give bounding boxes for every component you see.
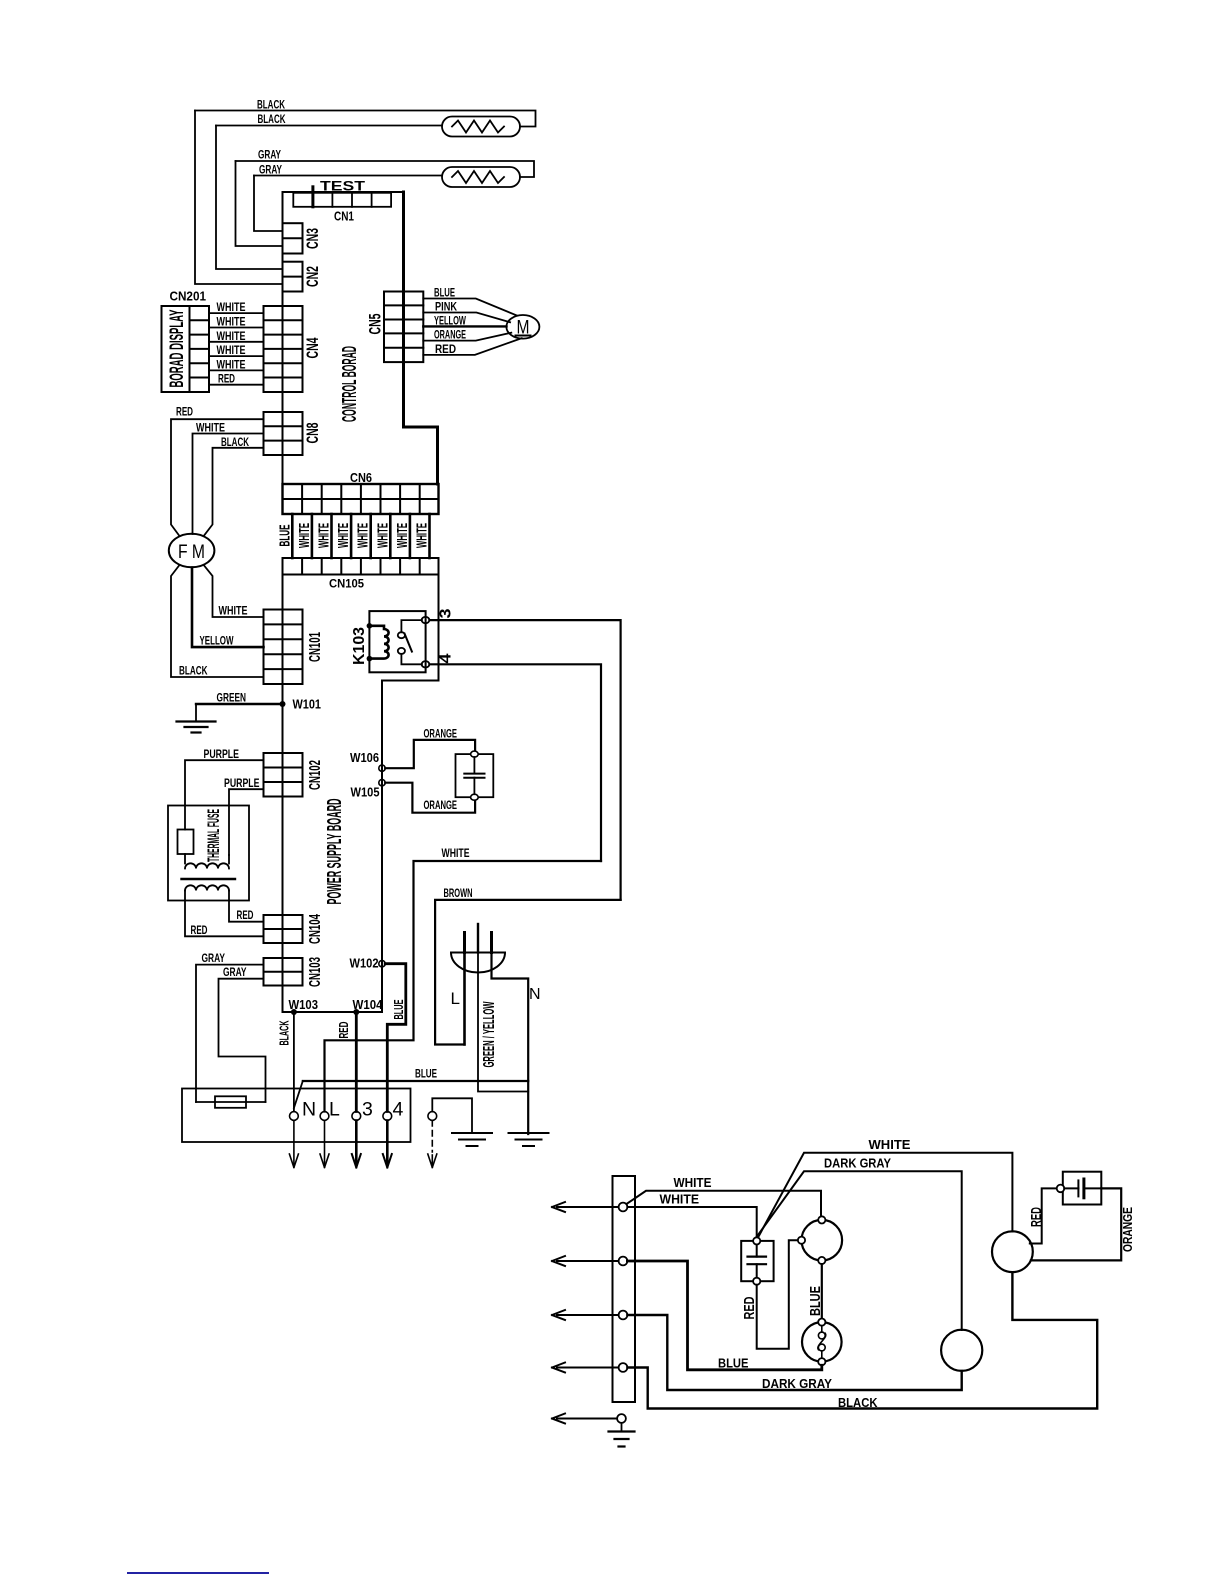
wire RED transformer to CN104 pin2 [185, 891, 264, 937]
ground (compressor harness) [621, 1423, 623, 1432]
svg-text:CN101: CN101 [307, 632, 324, 662]
wire WHITE CN201-CN4 pin1 [209, 312, 264, 314]
connector CN103 [264, 958, 303, 986]
svg-text:ORANGE: ORANGE [434, 330, 466, 342]
connector CN4 [264, 306, 303, 392]
thermal fuse element [178, 830, 194, 855]
svg-text:ORANGE: ORANGE [1120, 1207, 1135, 1252]
connector CN6 [283, 484, 439, 514]
node W105 [379, 780, 385, 786]
motor M (louver motor) [506, 315, 539, 339]
arrow below terminal L [324, 1121, 326, 1166]
capacitor C6 box [1063, 1172, 1102, 1205]
wire BLACK 2 to heater R1 [216, 125, 442, 127]
svg-text:YELLOW: YELLOW [434, 315, 466, 327]
wire RED CN201-CN4 pin6 [209, 384, 264, 386]
capacitor C101 box [456, 754, 494, 797]
svg-text:WHITE: WHITE [660, 1192, 700, 1206]
wire BROWN to plug L prong [435, 900, 620, 1045]
wire RED CN5 to motor M [423, 338, 521, 355]
svg-text:WHITE: WHITE [217, 359, 246, 371]
svg-text:CONTROL BORAD: CONTROL BORAD [339, 346, 361, 422]
svg-text:RED: RED [191, 925, 208, 937]
wire WHITE CN201-CN4 pin3 [209, 341, 264, 343]
svg-text:ORANGE: ORANGE [424, 728, 458, 740]
wire BLUE terminal N to plug N line [303, 1080, 528, 1082]
mains plug P1 [451, 952, 505, 954]
wire BLUE T2 to starter C5 bottom [627, 1261, 821, 1370]
heater R2 (gray circuit) [442, 167, 520, 187]
svg-text:CN105: CN105 [329, 577, 364, 591]
svg-text:WHITE: WHITE [414, 523, 431, 548]
svg-text:WHITE: WHITE [217, 331, 246, 343]
wire GRAY to CN103 pin2 (via fuse) [219, 979, 266, 1102]
svg-text:WHITE: WHITE [219, 606, 248, 618]
svg-text:3: 3 [362, 1099, 373, 1121]
wire GRAY 2 to heater R2 [254, 175, 442, 177]
svg-text:W105: W105 [351, 785, 380, 800]
svg-text:GREEN / YELLOW: GREEN / YELLOW [481, 1001, 498, 1067]
wire RED W104 to terminal 3 [355, 1012, 358, 1112]
svg-text:CN104: CN104 [307, 914, 324, 944]
transformer T1 primary winding [185, 854, 229, 864]
svg-text:POWER SUPPLY BOARD: POWER SUPPLY BOARD [324, 799, 346, 905]
wire PINK CN5 to motor M [423, 313, 510, 323]
connector CN3 [283, 223, 303, 253]
connector CN8 [264, 412, 303, 455]
svg-text:BORAD DISPLAY: BORAD DISPLAY [167, 309, 188, 387]
svg-text:K103: K103 [351, 627, 368, 665]
connector CN201 / display board box [162, 306, 210, 392]
wire bundle CN6 to CN105 (BLUE + 7x WHITE) [292, 514, 429, 558]
svg-text:WHITE: WHITE [316, 523, 333, 548]
svg-text:RED: RED [435, 344, 456, 356]
wire pin4 K103 to WHITE [429, 664, 601, 861]
arrow below terminal N [293, 1121, 295, 1166]
C1 bottom terminal [818, 1257, 825, 1264]
wire ORANGE capacitor C6 to compressor C4 [1031, 1188, 1121, 1260]
capacitor C2 box [741, 1241, 773, 1281]
svg-text:W106: W106 [350, 750, 379, 765]
svg-text:WHITE: WHITE [335, 523, 352, 548]
control board outline [283, 192, 404, 484]
relay K103 pin 4 [422, 661, 430, 667]
svg-text:RED: RED [237, 910, 254, 922]
svg-text:CN5: CN5 [366, 314, 385, 335]
wire PURPLE to CN102 pin1 [185, 760, 264, 829]
svg-text:CN1: CN1 [334, 210, 354, 224]
wire BLUE C1 to starter C5 [821, 1264, 823, 1318]
svg-text:GRAY: GRAY [202, 953, 226, 965]
connector CN1 [293, 187, 391, 207]
svg-text:TEST: TEST [320, 179, 366, 194]
svg-text:PURPLE: PURPLE [204, 749, 240, 761]
wire DARK GRAY (diagonal) cap C2 to motor C3 [756, 1171, 962, 1330]
C5 top terminal [818, 1319, 825, 1326]
svg-text:L: L [329, 1099, 340, 1121]
wire WHITE CN201-CN4 pin2 [209, 327, 264, 329]
wire YELLOW CN5 to motor M [423, 325, 506, 327]
wire WHITE T1 to overload C1 top [627, 1191, 822, 1216]
node W102 [379, 961, 385, 967]
wire WHITE T1 to capacitor C2 top [627, 1207, 756, 1237]
svg-text:GREEN: GREEN [217, 693, 247, 705]
wire BLACK CN8 to fan motor FM [204, 448, 264, 536]
svg-text:W104: W104 [353, 997, 384, 1012]
connector bar (compressor harness) [613, 1176, 636, 1402]
wire BLUE W102 to terminal 4 [385, 964, 406, 1112]
relay K103 pin 3 [422, 617, 430, 623]
overload protector C1 [802, 1220, 843, 1261]
svg-text:RED: RED [218, 374, 235, 386]
capacitor C6 terminal [1057, 1185, 1065, 1193]
terminal T2 with arrow [557, 1260, 619, 1262]
wire L prong down to BROWN corner [463, 953, 466, 1045]
wire GRAY 1 to heater R2 [236, 161, 535, 177]
relay K103 switch contacts [398, 632, 405, 638]
thermal fuse / transformer unit box [168, 806, 249, 901]
svg-text:DARK GRAY: DARK GRAY [824, 1157, 892, 1171]
arrow below terminal 3 [355, 1121, 358, 1166]
wire GRAY to CN103 pin1 (via fuse) [196, 965, 264, 1102]
svg-text:W101: W101 [293, 697, 322, 712]
wire GRAY 1 vertical to CN3 pin 2 [236, 161, 283, 246]
svg-text:CN2: CN2 [303, 266, 322, 287]
svg-text:WHITE: WHITE [196, 422, 225, 434]
svg-text:WHITE: WHITE [217, 317, 246, 329]
page footer blue line [127, 1572, 269, 1574]
svg-text:CN4: CN4 [303, 337, 322, 358]
connector CN5 [384, 292, 423, 363]
wire DARK GRAY T3 to motor C3 bottom [627, 1315, 961, 1390]
capacitor C101 terminals [471, 751, 479, 757]
svg-text:GRAY: GRAY [223, 967, 247, 979]
C1 left terminal [798, 1237, 805, 1244]
C1 top terminal [818, 1216, 825, 1223]
starter relay C5 [802, 1322, 842, 1362]
svg-text:BLUE: BLUE [276, 525, 293, 547]
wire BLACK W103 to terminal N [293, 1012, 295, 1112]
svg-text:BLACK: BLACK [179, 665, 208, 677]
wire GREEN/YELLOW earth prong down [478, 953, 528, 1092]
svg-text:CN201: CN201 [170, 290, 207, 304]
relay K103 switch blade [405, 634, 412, 652]
terminal T1 with arrow [557, 1206, 619, 1208]
svg-text:BLUE: BLUE [415, 1069, 437, 1081]
connector CN105 [283, 558, 439, 575]
svg-text:THERMAL FUSE: THERMAL FUSE [204, 809, 223, 862]
svg-text:L: L [451, 989, 460, 1008]
svg-text:BLACK: BLACK [257, 100, 285, 112]
connector CN104 [264, 915, 303, 943]
svg-text:GRAY: GRAY [258, 150, 281, 162]
terminal T4 with arrow [557, 1367, 619, 1369]
wire BLACK 1 vertical to CN2 pin 2 [195, 111, 283, 285]
plug prong earth [477, 924, 479, 953]
svg-text:WHITE: WHITE [374, 523, 391, 548]
svg-text:ORANGE: ORANGE [424, 800, 458, 812]
svg-text:YELLOW: YELLOW [200, 636, 234, 648]
svg-text:W103: W103 [289, 997, 319, 1012]
wire YELLOW FM to CN101 pin3 [192, 568, 264, 648]
ground (W101 green wire) [195, 704, 197, 722]
svg-text:RED: RED [741, 1296, 758, 1319]
svg-text:BLUE: BLUE [392, 1000, 406, 1020]
wire GRAY 2 vertical to CN3 pin 1 [254, 176, 283, 232]
svg-text:F M: F M [178, 542, 205, 563]
fan motor FM [169, 534, 215, 568]
C5 internal contacts [818, 1332, 825, 1339]
wire RED CN8 to fan motor FM [171, 419, 264, 536]
plug prong N [490, 933, 493, 953]
svg-text:GRAY: GRAY [259, 165, 282, 177]
wire ORANGE CN5 to motor M [423, 333, 511, 341]
terminal 3 [352, 1112, 361, 1121]
wire BLUE CN5 to motor M [423, 299, 517, 316]
capacitor C2 terminals [753, 1237, 760, 1244]
terminal T3 with arrow [557, 1314, 619, 1316]
transformer T1 secondary winding [185, 885, 229, 890]
capacitor C6 symbol [1064, 1187, 1101, 1189]
wire BLACK T4 to compressor C4 bottom [627, 1272, 1097, 1408]
terminal 4 [383, 1112, 392, 1121]
svg-text:WHITE: WHITE [869, 1138, 911, 1152]
fuse F1 wire [196, 1101, 266, 1103]
wire BLACK FM to CN101 pin5 [171, 565, 264, 677]
svg-text:4: 4 [438, 653, 455, 663]
capacitor C2 symbol [756, 1245, 758, 1278]
svg-text:WHITE: WHITE [217, 302, 246, 314]
wire BLACK 2 vertical to CN2 pin 1 [216, 126, 283, 270]
capacitor C101 symbol [473, 757, 475, 794]
wire WHITE (diagonal) cap C2 to compressor C4 [758, 1153, 1013, 1238]
connector CN2 [283, 262, 303, 292]
wire ORANGE W105 to capacitor C101 [385, 783, 475, 813]
svg-text:CN102: CN102 [307, 760, 324, 790]
svg-text:RED: RED [176, 407, 193, 419]
wire WHITE FM to CN101 pin1 [204, 565, 264, 617]
wire PURPLE to CN102 pin3 [229, 789, 264, 855]
svg-text:WHITE: WHITE [217, 345, 246, 357]
svg-text:BLUE: BLUE [434, 288, 455, 300]
svg-text:CN8: CN8 [303, 423, 322, 444]
node W101 [280, 701, 286, 707]
svg-text:BLACK: BLACK [838, 1396, 878, 1410]
terminal L [320, 1112, 329, 1121]
ground (mains N) [509, 1133, 549, 1146]
connector CN101 [264, 610, 303, 685]
wire WHITE CN8 to fan motor FM [193, 434, 264, 535]
wire RED transformer to CN104 pin1 [229, 891, 264, 922]
svg-text:RED: RED [1029, 1207, 1045, 1227]
wire WHITE CN201-CN4 pin5 [209, 369, 264, 371]
wire ORANGE W106 to capacitor C101 [385, 740, 475, 768]
relay K103 coil [369, 626, 388, 659]
svg-text:CN3: CN3 [303, 228, 322, 249]
wire BLACK 1 to heater R1 [195, 111, 536, 127]
relay K103 coil terminals [367, 623, 373, 629]
relay K103 [369, 611, 425, 672]
C5 bottom terminal [818, 1358, 825, 1365]
heater R1 (top, black circuit) [442, 117, 520, 137]
fan motor C3 [941, 1330, 982, 1371]
svg-text:WHITE: WHITE [442, 848, 470, 860]
svg-text:CN6: CN6 [350, 470, 372, 485]
svg-text:RED: RED [337, 1022, 351, 1039]
svg-text:WHITE: WHITE [394, 523, 411, 548]
svg-text:WHITE: WHITE [355, 523, 372, 548]
wire N prong to ground [492, 953, 529, 1135]
node W104 [353, 1009, 359, 1015]
power supply board outline [283, 575, 383, 1013]
node W103 [291, 1009, 297, 1015]
wire WHITE CN201-CN4 pin4 [209, 355, 264, 357]
svg-text:WHITE: WHITE [674, 1176, 712, 1190]
arrow below terminal 4 [386, 1121, 389, 1166]
terminal N [290, 1112, 299, 1121]
wire pin3 K103 to BROWN [429, 620, 620, 900]
svg-text:N: N [529, 986, 541, 1003]
svg-text:4: 4 [393, 1099, 404, 1121]
svg-text:BLACK: BLACK [258, 114, 286, 126]
svg-text:PURPLE: PURPLE [224, 778, 260, 790]
wire GREEN to node W101 [196, 703, 283, 705]
relay K103 internal wiring [401, 620, 422, 632]
svg-text:3: 3 [438, 608, 455, 618]
svg-text:BLUE: BLUE [807, 1286, 824, 1316]
plug prong L [463, 933, 466, 953]
svg-text:BLACK: BLACK [221, 437, 249, 449]
transformer T1 core [182, 878, 236, 880]
svg-text:BLUE: BLUE [718, 1357, 749, 1371]
svg-text:BROWN: BROWN [444, 888, 473, 900]
wire WHITE to terminal L [325, 861, 602, 1112]
wire RED cap C2 to overload C1 left [757, 1240, 798, 1349]
compressor C4 [992, 1231, 1033, 1272]
wire earth terminal to ground [432, 1098, 472, 1133]
svg-text:N: N [302, 1099, 316, 1121]
svg-text:DARK GRAY: DARK GRAY [762, 1377, 833, 1391]
fuse F1 [215, 1096, 246, 1108]
svg-text:W102: W102 [350, 956, 379, 971]
svg-text:CN103: CN103 [307, 957, 324, 987]
svg-text:BLACK: BLACK [278, 1021, 292, 1046]
earth terminal T5 with arrow [557, 1418, 617, 1420]
ground (terminal box) [452, 1133, 492, 1146]
svg-text:WHITE: WHITE [296, 523, 313, 548]
earth terminal (chassis) [428, 1112, 437, 1121]
wire RED compressor C4 to capacitor C6 [1030, 1188, 1057, 1243]
dashed arrow below earth terminal [431, 1121, 433, 1153]
terminal block box [182, 1089, 411, 1143]
svg-text:PINK: PINK [435, 302, 458, 314]
node W106 [379, 765, 385, 771]
connector CN102 [264, 753, 303, 797]
